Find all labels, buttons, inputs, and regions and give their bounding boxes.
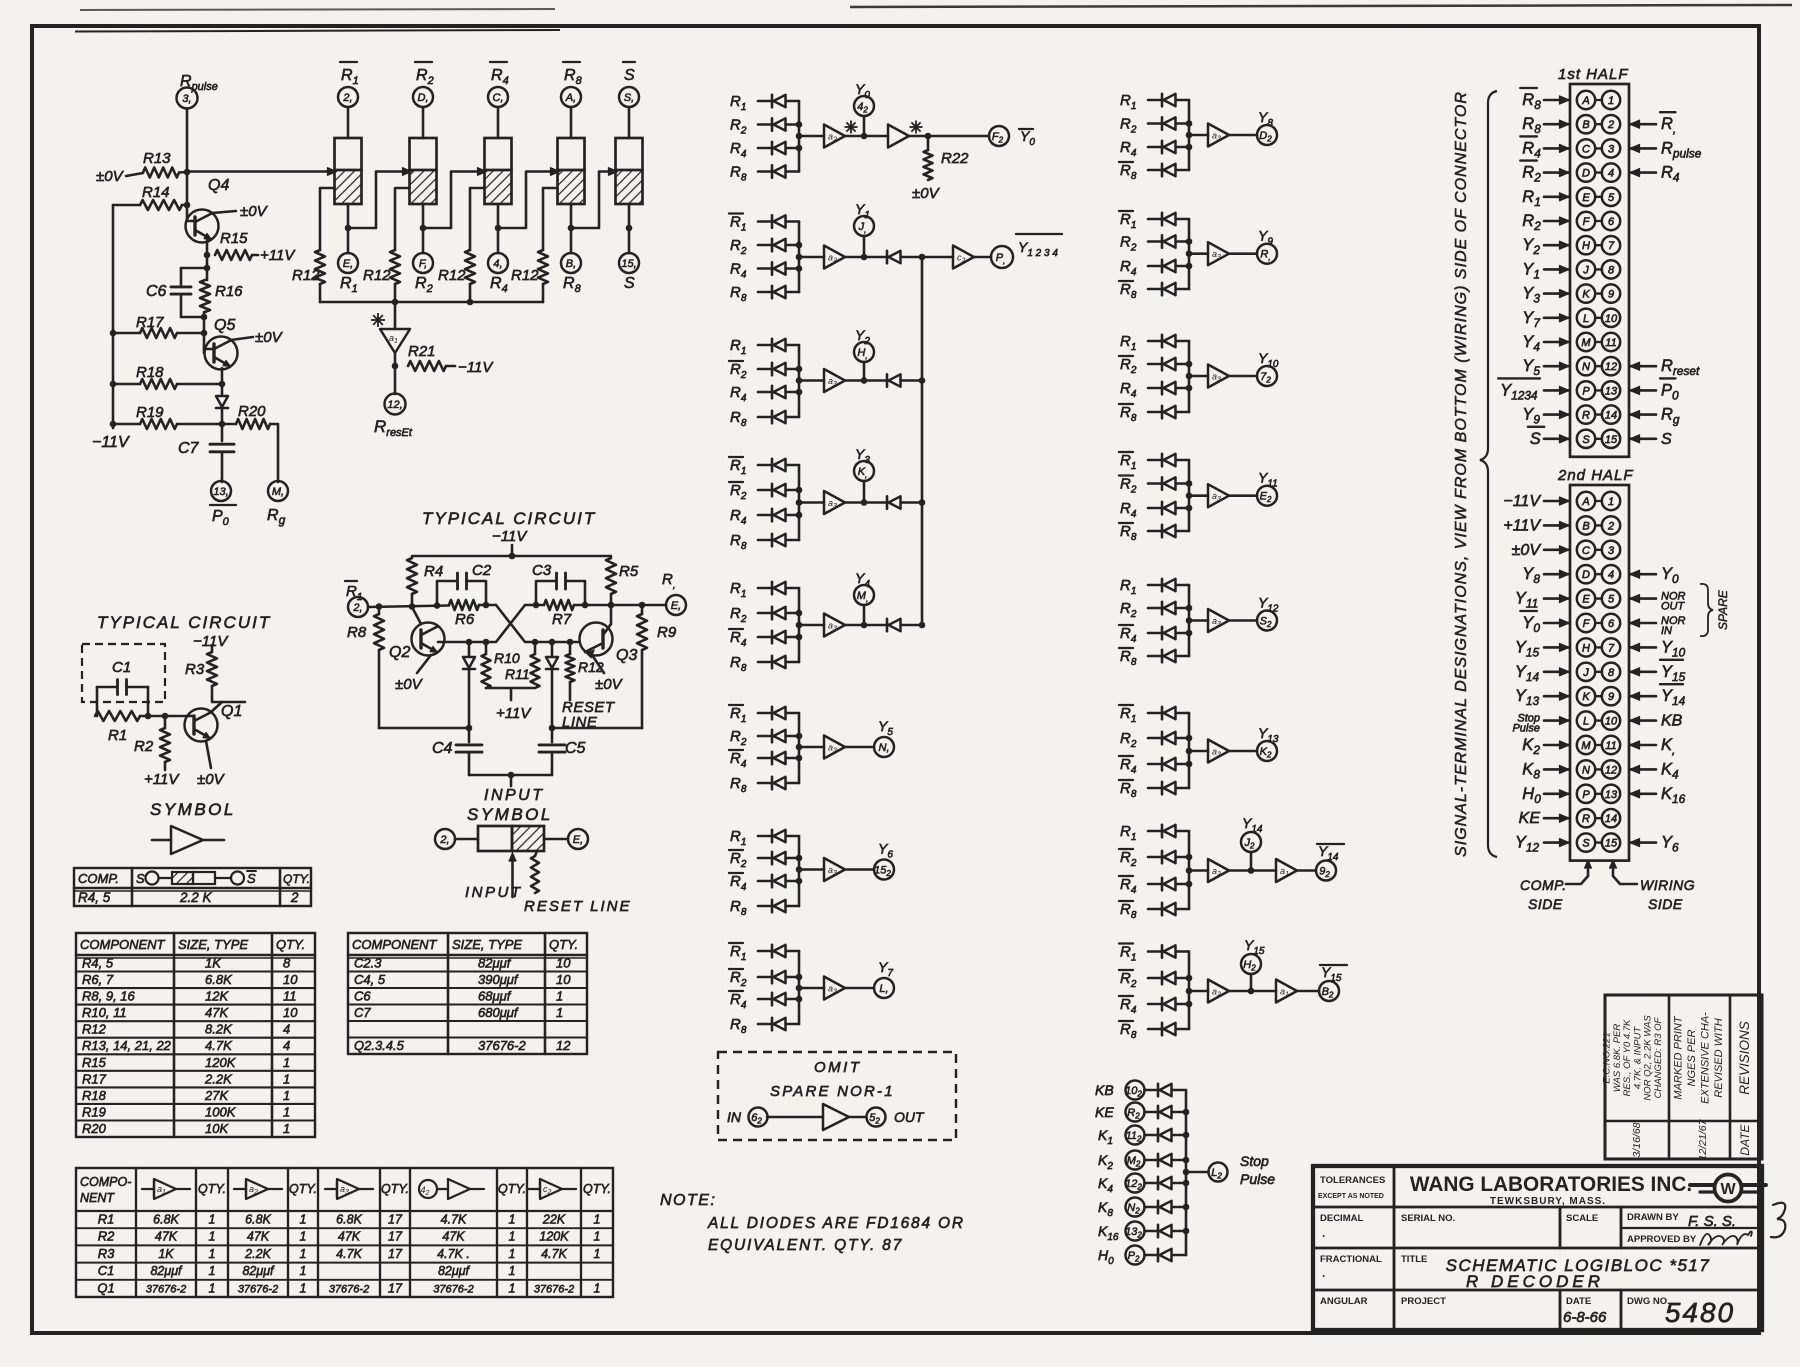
wire diode to bus [786,147,799,150]
svg-text:SIZE, TYPE: SIZE, TYPE [452,937,522,952]
svg-text:OMIT: OMIT [814,1059,862,1076]
pin L-10 [1577,309,1620,327]
svg-text:2: 2 [1607,520,1614,532]
diode [1161,502,1164,514]
label R2 bar [415,62,434,87]
terminal P2 [1126,1246,1145,1265]
svg-text:8: 8 [1608,667,1615,679]
svg-text:2.2K: 2.2K [244,1247,271,1261]
pin H-7 [1577,638,1620,656]
terminal 122 [1126,1174,1145,1193]
resistor R22 [924,136,933,180]
input net R4 [1120,380,1137,400]
diode [771,262,774,274]
pin E-5 [1577,188,1620,206]
table sym S circle [136,871,256,886]
diode [771,752,774,764]
wire terminal to diode [1145,1206,1159,1209]
terminal (Y10) [1257,366,1277,386]
svg-text:C3: C3 [532,562,552,579]
transistor Q4 [186,210,219,243]
wire staircase to next block [423,172,485,229]
wire diode to bus [1176,856,1189,859]
svg-text:2,: 2, [342,92,352,104]
diode [771,95,774,107]
svg-text:S: S [1530,430,1541,448]
diode to OR bus [886,251,889,263]
svg-text:R13: R13 [143,150,171,167]
svg-text:W: W [1720,1181,1736,1198]
diode [771,656,774,668]
net label R pulse [1630,139,1702,160]
terminal 132 [1126,1222,1145,1241]
terminal 9-2 (Y14 bar) [1316,861,1336,881]
wire amp to junction [845,624,887,627]
gate amplifier a3 [1208,365,1229,388]
svg-text:2.2K: 2.2K [204,1071,233,1086]
wire input lead [1148,950,1162,953]
input net R4 [1120,500,1137,520]
input net R4 bar [729,991,747,1011]
symbol terminal 2-1 [435,829,455,849]
terminal (Y13) [1257,741,1277,761]
pin S-15 [1577,430,1620,448]
svg-text:Q1: Q1 [221,703,242,720]
svg-text:1: 1 [300,1247,307,1261]
wire gate input bus [798,713,801,783]
diode [1161,1023,1164,1035]
svg-text:Q2.3.4.5: Q2.3.4.5 [354,1038,405,1053]
svg-text:C1: C1 [98,1263,115,1278]
flip-flop block R2 [410,138,437,204]
svg-text:B,: B, [566,258,576,270]
wire diode to bus [786,489,799,492]
svg-text:R8, 9, 16: R8, 9, 16 [82,989,136,1004]
svg-text:SYMBOL: SYMBOL [467,805,553,824]
svg-text:Stop: Stop [1240,1153,1269,1169]
gate table data [97,1212,600,1296]
svg-text:R18: R18 [136,364,164,381]
wire diode to bus [1172,1206,1186,1209]
svg-text:R11: R11 [505,666,530,682]
svg-text:3/16/68: 3/16/68 [1631,1122,1643,1157]
svg-text:R12: R12 [82,1022,107,1037]
wire diode to bus [786,514,799,517]
svg-text:N: N [1582,361,1590,373]
wire R pulse vertical [186,109,189,222]
spare NOR dashed box [718,1052,956,1140]
svg-text:15: 15 [1605,434,1618,446]
svg-text:1: 1 [556,989,563,1004]
svg-text:1: 1 [509,1281,516,1295]
svg-text:13,: 13, [213,486,228,498]
net label K4 [1630,760,1679,781]
svg-text:±0V: ±0V [96,168,125,185]
wire bus to amplifier [1189,494,1208,497]
svg-text:ANGULAR: ANGULAR [1320,1296,1368,1307]
svg-text:D: D [1582,168,1590,180]
wire amp to terminal [1229,375,1257,378]
wire terminal to block [497,107,500,138]
svg-text:2,: 2, [439,834,449,846]
input net R8 [730,284,747,304]
svg-text:QTY.: QTY. [283,872,310,886]
svg-text:4.7K: 4.7K [541,1247,567,1261]
wire input lead [758,344,772,347]
svg-text:2nd HALF: 2nd HALF [1557,467,1634,484]
input net R4 bar [1119,756,1137,776]
svg-text:REVISIONS: REVISIONS [1737,1021,1752,1095]
wire Q5 collector to 0V [231,337,253,340]
component table C list [348,933,587,1054]
wire terminal to diode [1145,1159,1159,1162]
diode [771,215,774,227]
svg-text:WANG LABORATORIES INC.: WANG LABORATORIES INC. [1410,1173,1692,1196]
net label R1 [1522,188,1569,209]
diode [1161,782,1164,794]
svg-text:11: 11 [283,989,297,1004]
svg-text:R: R [1582,813,1590,825]
wire input lead [1148,830,1162,833]
input net R2 [730,237,747,257]
gate amplifier a3 [1208,740,1229,763]
svg-text:37676-2: 37676-2 [534,1283,574,1295]
svg-text:4.7K. & INPUT: 4.7K. & INPUT [1632,1026,1643,1089]
net label +11V [1503,517,1569,534]
resistor R9 [637,605,647,728]
gate amplifier a3 [1208,484,1229,507]
label reset line [562,699,616,731]
wire diode to bus [1176,530,1189,533]
K group bus [1185,1090,1188,1255]
input net R4 bar [729,873,747,893]
net label -11V [1503,493,1569,510]
svg-text:17: 17 [388,1281,403,1295]
wire junction to Y terminal [863,481,866,503]
diode [1161,650,1164,662]
wire Q4 collector to 0V [212,211,236,213]
svg-text:1: 1 [594,1247,601,1261]
svg-text:R14: R14 [142,184,170,201]
svg-text:A: A [1581,496,1589,508]
star mark [371,313,385,327]
svg-text:R4, 5: R4, 5 [78,890,111,905]
terminal 13-1 (P0 bar) [211,481,231,501]
svg-text:S: S [624,275,635,292]
net label R4 bar [1520,136,1569,160]
wire input lead [1148,584,1162,587]
svg-text:1: 1 [209,1213,216,1227]
wire diode to bus [1172,1134,1186,1137]
resistor R1 [95,711,140,721]
wire diode to bus [786,782,799,785]
wire gate input bus [1188,219,1191,289]
pin E-5 [1577,589,1620,607]
wire input lead [1148,482,1162,485]
svg-text:6.8K: 6.8K [336,1213,362,1227]
svg-text:1: 1 [509,1213,516,1227]
wire bus to amplifier [1189,375,1208,378]
input net R8 [730,164,747,184]
pin D-4 [1577,163,1620,181]
svg-text:P: P [1582,789,1590,801]
wire input lead [1148,363,1162,366]
wire bus to amplifier [799,868,824,871]
svg-text:5: 5 [1608,594,1615,606]
svg-text:12K: 12K [205,989,229,1004]
svg-text:COMP.: COMP. [1520,877,1567,893]
wire diode to bus [786,391,799,394]
svg-text:4.7K: 4.7K [205,1038,233,1053]
svg-text:C,: C, [493,92,504,104]
svg-text:4,: 4, [493,258,502,270]
wire input lead [758,905,772,908]
svg-text:R1: R1 [108,727,127,744]
wire emitter chain [206,255,209,280]
resistor R2 [160,728,170,762]
wire input lead [1148,712,1162,715]
gate 42 header symbol [419,1179,484,1199]
svg-text:+11V: +11V [144,771,180,788]
svg-text:C6: C6 [354,989,371,1004]
svg-text:9: 9 [1608,691,1614,703]
terminal 4-2 (Y0) [854,96,874,116]
gate amplifier NOR [888,125,909,148]
wire in to triangle [767,1116,823,1119]
wire bus to amplifier [1189,619,1208,622]
svg-text:S: S [247,871,256,886]
wire Q4 emitter down [206,240,209,255]
wire diode to bus [1176,288,1189,291]
input net R2 bar [729,969,747,989]
pin K-9 [1577,284,1620,302]
wire input lead [758,267,772,270]
diode [771,386,774,398]
wire diode to bus [786,123,799,126]
spare brace [1700,584,1713,636]
wire R10 R11 to +11V [486,688,535,700]
terminal 3-1 (R pulse) [177,88,198,109]
svg-text:EXTENSIVE CHA-: EXTENSIVE CHA- [1700,1012,1712,1104]
label Y13 [1258,725,1279,745]
svg-text:D,: D, [418,92,429,104]
svg-text:F. S. S.: F. S. S. [1688,1213,1736,1230]
input net R4 [730,261,747,281]
wire amp to terminal [1229,134,1257,137]
diode [1161,260,1164,272]
wire bottom left node [379,727,469,730]
svg-text:120K: 120K [539,1230,569,1244]
arrow into block [478,168,487,176]
input net R1 [730,580,746,600]
net label Y7 [1522,309,1569,330]
svg-text:13: 13 [1605,789,1618,801]
resistor R20 [236,419,270,429]
net label R4 [1630,164,1680,185]
wire R16 to Q5 base [203,312,206,353]
wire gate input bus [798,465,801,540]
input net R1 bar [729,943,746,963]
wire top rail [412,555,611,558]
diode [771,142,774,154]
diode [771,707,774,719]
label Y7 [878,959,893,979]
svg-text:10: 10 [556,956,571,971]
terminal 2, [338,87,358,107]
wire diode to bus [1172,1254,1186,1257]
wire gate input bus [798,101,801,172]
svg-text:E: E [1582,192,1590,204]
svg-text:17: 17 [388,1247,403,1261]
svg-text:R22: R22 [941,150,969,167]
input net R1 [730,337,746,357]
terminal 4, [488,253,508,273]
wire R20 to Rg terminal [222,423,236,426]
wire left node line [368,606,449,608]
svg-text:82μμf: 82μμf [438,1264,471,1278]
wire diode to bus [1176,387,1189,390]
wire to B2 terminal [1297,990,1319,993]
svg-text:SIGNAL-TERMINAL DESIGNATIONS,: SIGNAL-TERMINAL DESIGNATIONS, VIEW FROM … [1453,91,1470,857]
wire amp to terminal [845,746,874,749]
junction R13/rail [184,169,191,176]
drawing title [1446,1256,1711,1291]
svg-text:7: 7 [1608,642,1615,654]
resistor R11 [531,642,540,688]
label Y14 [1242,815,1263,835]
spare NOR triangle [823,1104,849,1130]
svg-text:10: 10 [1605,313,1618,325]
wire amp to terminal [1229,619,1257,622]
svg-text:17: 17 [388,1230,403,1244]
wire terminal to block [422,107,425,138]
wire cross coupling X [438,605,578,642]
capacitor C4 [456,728,482,775]
gate amplifier a1 Y14 [1276,859,1297,882]
wire R19 leads [113,423,140,426]
input net R8 bar [1119,523,1137,543]
diode [1161,998,1164,1010]
svg-text:Pulse: Pulse [1512,723,1540,735]
svg-text:10: 10 [1605,716,1618,728]
pin N-12 [1577,357,1620,375]
wire gate input bus [1188,100,1191,170]
terminal S, [619,87,639,107]
net label Y15 bar [1630,660,1686,684]
net label Y15 [1515,638,1569,659]
diode [1157,1106,1160,1118]
wire diode to bus [786,976,799,979]
wire amp to junction [845,501,887,504]
terminal 112 [1126,1126,1145,1145]
wire diode to bus [1176,240,1189,243]
svg-text:5: 5 [1608,192,1615,204]
svg-text:K: K [1582,289,1590,301]
terminal 6-2 [749,1108,768,1127]
svg-text:82μμf: 82μμf [242,1264,275,1278]
wire input lead [1148,240,1162,243]
wire -11V stub [511,545,514,556]
svg-text:68μμf: 68μμf [478,989,512,1004]
wire diode to bus [1176,122,1189,125]
svg-text:R8: R8 [347,624,367,641]
svg-text:TITLE: TITLE [1401,1254,1427,1265]
wire diode to bus [786,344,799,347]
wire diode to junction [221,409,224,441]
svg-text:4: 4 [1608,569,1614,581]
input net R2 bar [1119,356,1137,376]
wire input lead [758,612,772,615]
wang logo [1690,1175,1766,1202]
wire gate input bus [1188,713,1191,788]
svg-text:C2: C2 [472,562,492,579]
diode [1157,1177,1160,1189]
diode CR2 [463,642,475,728]
wire input lead [1148,265,1162,268]
wire block to lower junction [628,204,631,253]
diode [1161,903,1164,915]
wire input lead [758,661,772,664]
label R1 bar [340,62,359,87]
diode to OR bus [886,619,889,631]
diode [1161,878,1164,890]
pin C-3 [1577,541,1620,559]
wire input lead [758,735,772,738]
svg-text:COMPONENT: COMPONENT [352,937,438,952]
wire terminal to diode [1145,1111,1159,1114]
wire diode to OR bus [901,256,953,259]
svg-text:S,: S, [624,92,634,104]
capacitor C5 [539,728,565,775]
diode [771,459,774,471]
star mark Y0 a [845,121,858,134]
pin P-13 [1577,381,1620,399]
wire Q5 emitter down [221,368,224,394]
net label Y10 [1630,638,1686,659]
transistor Q1 [185,702,223,742]
wire diode to OR bus [901,379,922,382]
svg-text:4.7K: 4.7K [441,1213,467,1227]
net label R8 [1522,115,1569,136]
label Y8 [1258,109,1273,129]
wire diode to bus [786,1023,799,1026]
label Y6 [878,841,893,861]
svg-text:R15: R15 [82,1055,107,1070]
svg-text:47K: 47K [205,1005,229,1020]
label Y14 bar [1317,843,1344,863]
title block frame [1313,1166,1762,1330]
wire input lead [758,1023,772,1026]
svg-text:±0V: ±0V [912,185,941,202]
wire amp to terminal [1229,252,1257,255]
svg-text:EXCEPT AS NOTED: EXCEPT AS NOTED [1318,1193,1384,1200]
svg-text:QTY.: QTY. [289,1182,317,1196]
svg-text:QTY.: QTY. [549,937,578,952]
svg-text:100K: 100K [205,1104,237,1119]
svg-text:R6, 7: R6, 7 [82,972,114,987]
gate component table [76,1168,613,1297]
svg-text:INPUT: INPUT [484,787,545,804]
svg-text:R16: R16 [215,283,243,300]
diode [771,411,774,423]
wire diode to OR bus [901,624,922,627]
svg-text:C4, 5: C4, 5 [354,972,386,987]
terminal (Y12) [1257,611,1277,631]
svg-text:DATE: DATE [1738,1123,1752,1155]
svg-text:A: A [1581,95,1589,107]
wire bus to amplifier [799,746,824,749]
wire R13 to junction [179,171,187,174]
